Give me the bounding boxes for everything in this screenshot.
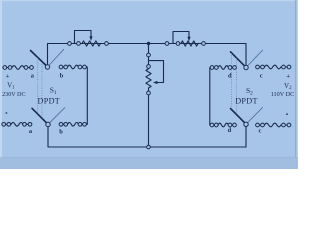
- svg-text:b: b: [60, 72, 64, 79]
- svg-text:d: d: [228, 72, 232, 79]
- svg-text:DPDT: DPDT: [235, 96, 258, 105]
- svg-text:+: +: [286, 73, 290, 80]
- svg-text:DPDT: DPDT: [38, 96, 61, 105]
- svg-text:c: c: [259, 127, 262, 134]
- svg-text:d: d: [228, 127, 232, 134]
- svg-text:b: b: [59, 128, 63, 135]
- svg-text:110V DC: 110V DC: [271, 91, 295, 98]
- svg-text:c: c: [260, 73, 263, 80]
- svg-text:+: +: [6, 73, 10, 80]
- svg-text:230V DC: 230V DC: [2, 92, 25, 98]
